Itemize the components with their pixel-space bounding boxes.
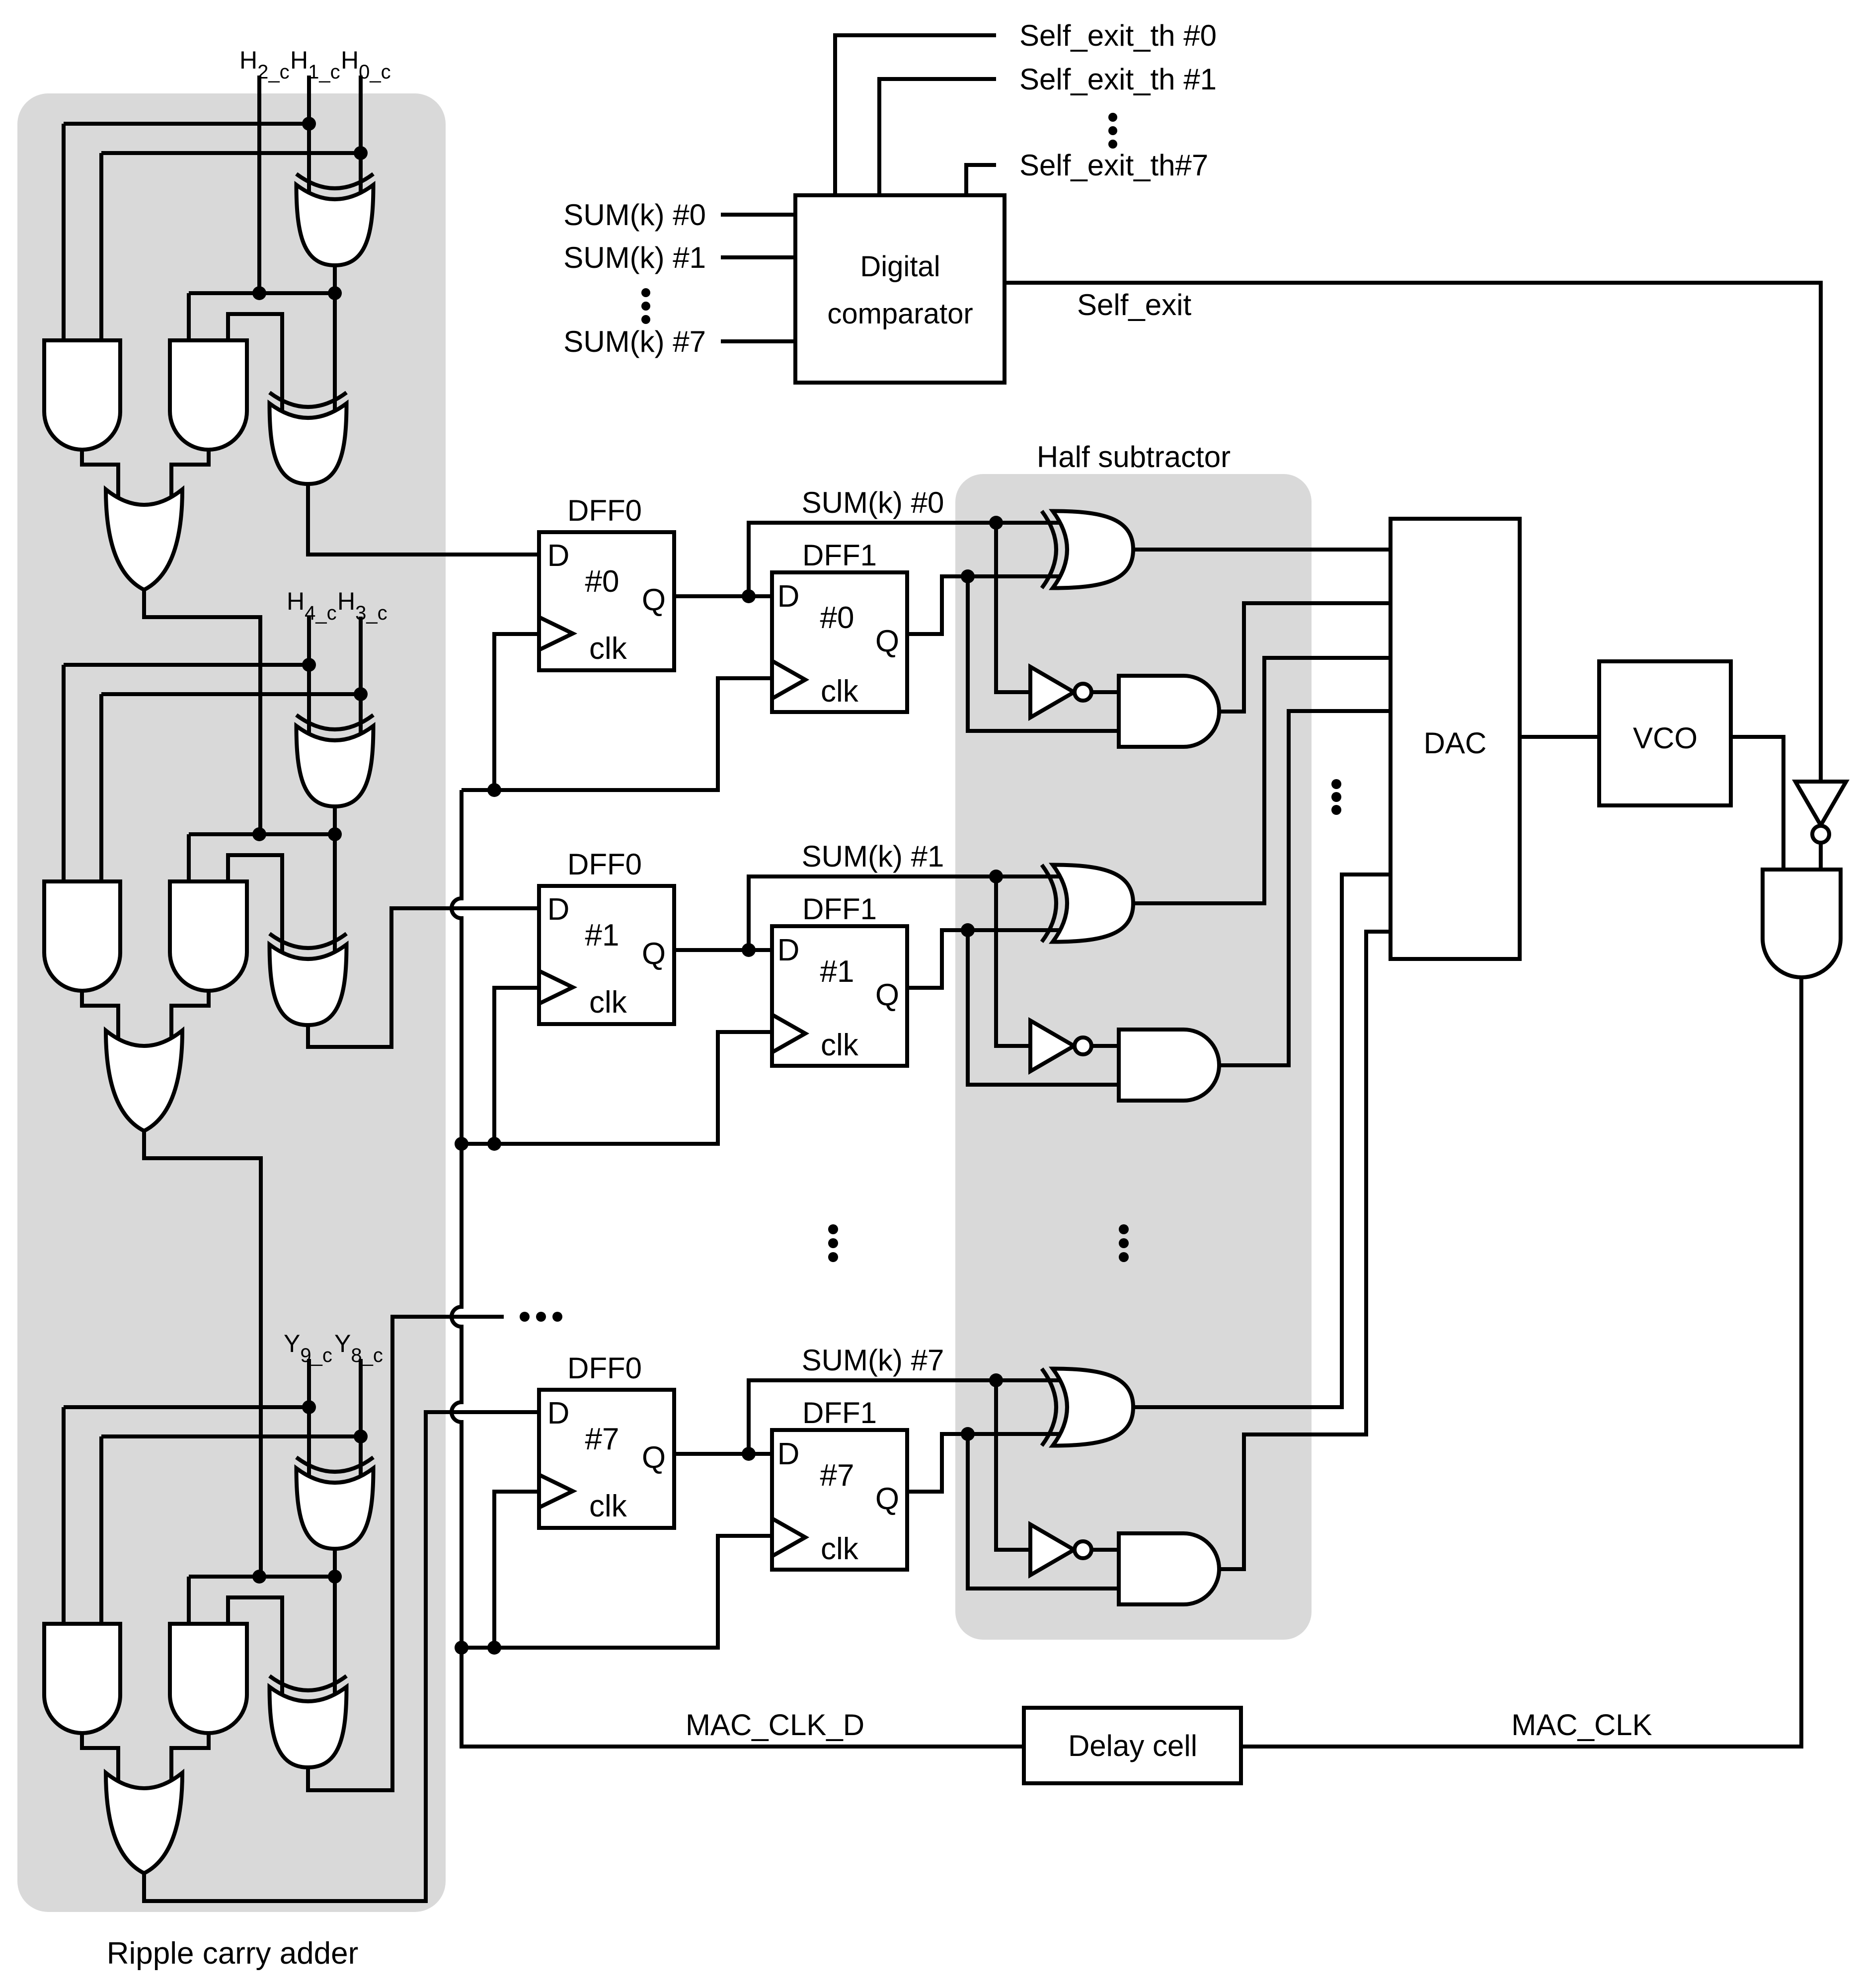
wire main (carry-in) stage3 bbox=[189, 1575, 335, 1579]
and gate AND1 stage3 bbox=[44, 1624, 120, 1733]
wire SUM(k) #7 input bbox=[721, 339, 795, 343]
svg-text:Self_exit: Self_exit bbox=[1077, 288, 1191, 321]
xor gate half-subtractor row0 bbox=[1053, 511, 1133, 588]
wire AND row7 to DAC bbox=[1219, 932, 1391, 1569]
dff DFF0 #7 bbox=[539, 1390, 674, 1528]
wire W2 drop to AND1 stage2 bbox=[99, 694, 103, 884]
xor gate XOR1 stage1 bbox=[297, 185, 374, 265]
wire XOR1 out stage2 bbox=[333, 806, 337, 834]
and gate half-subtractor row7 bbox=[1119, 1533, 1219, 1604]
wire Self_exit_th #7 bbox=[966, 165, 996, 195]
wire to AND in2 row1 bbox=[968, 930, 1119, 1085]
ellipsis SUM(k) bbox=[641, 288, 650, 297]
wire clk to DFF0 row0 bbox=[494, 634, 539, 790]
wire to XOR2 in2 stage1 bbox=[333, 293, 337, 422]
svg-text:DAC: DAC bbox=[1424, 726, 1487, 760]
svg-text:VCO: VCO bbox=[1633, 721, 1698, 755]
and gate AND2 stage3 bbox=[170, 1624, 247, 1733]
node W2-B stage2 bbox=[354, 687, 368, 701]
svg-text:D: D bbox=[547, 1396, 570, 1431]
wire AND row1 to DAC bbox=[1219, 711, 1391, 1065]
ellipsis rows (DFF area) bbox=[828, 1224, 838, 1234]
wire XOR1 out stage3 bbox=[333, 1549, 337, 1577]
inverter row7 bbox=[1030, 1524, 1074, 1575]
wire W2 stage1 bbox=[101, 151, 361, 155]
dff DFF1 #1 bbox=[772, 926, 907, 1066]
wire DFF0 Q to DFF1 D row1 bbox=[674, 948, 772, 952]
svg-text:SUM(k) #7: SUM(k) #7 bbox=[563, 325, 706, 358]
node SUM tap row0 bbox=[989, 516, 1003, 530]
xor gate XOR2 (sum) stage2 bbox=[270, 945, 347, 1025]
svg-text:SUM(k) #7: SUM(k) #7 bbox=[802, 1344, 944, 1377]
node Q tap row0 bbox=[742, 589, 756, 603]
xor gate half-subtractor row7 bbox=[1053, 1369, 1133, 1446]
node Q tap row7 bbox=[742, 1447, 756, 1461]
svg-text:SUM(k) #1: SUM(k) #1 bbox=[563, 241, 706, 274]
svg-text:D: D bbox=[547, 892, 570, 927]
svg-text:Self_exit_th #0: Self_exit_th #0 bbox=[1019, 19, 1217, 52]
wire MAC_CLK bbox=[1241, 977, 1801, 1747]
and gate half-subtractor row0 bbox=[1119, 676, 1219, 747]
wire to inverter row7 bbox=[996, 1380, 1030, 1550]
wire W1 stage2 bbox=[64, 663, 309, 667]
dff DFF1 #0 bbox=[772, 572, 907, 712]
node W1-A stage1 bbox=[302, 117, 316, 131]
inverter row1 bbox=[1030, 1021, 1074, 1071]
wire carry-out OR3 to DFF0 row7 D bbox=[144, 1412, 539, 1901]
wire W1 stage1 bbox=[64, 122, 309, 126]
wire SUM(k) #1 input bbox=[721, 255, 795, 259]
and gate AND2 stage1 bbox=[170, 340, 247, 450]
node carry-in stage3 bbox=[252, 1570, 266, 1584]
wire Self_exit_th #1 bbox=[879, 79, 996, 195]
wire step to XOR2 in1 stage1 bbox=[228, 314, 282, 422]
wire clk rail row1 bbox=[462, 1032, 772, 1144]
and gate AND1 stage2 bbox=[44, 881, 120, 991]
ellipsis rows (half subtractor area) bbox=[1119, 1224, 1129, 1234]
svg-text:D: D bbox=[777, 1437, 800, 1471]
wire to AND2 in1 stage3 bbox=[187, 1577, 191, 1626]
svg-text:clk: clk bbox=[589, 985, 627, 1020]
wire input B stage2 bbox=[359, 617, 363, 745]
wire AND1 out stage2 bbox=[82, 991, 118, 1050]
vco VCO box bbox=[1599, 661, 1731, 805]
and gate half-subtractor row1 bbox=[1119, 1030, 1219, 1101]
svg-text:Q: Q bbox=[875, 1482, 899, 1516]
wire input A stage2 bbox=[307, 617, 311, 745]
wire W2 drop to AND1 stage1 bbox=[99, 153, 103, 343]
svg-text:MAC_CLK_D: MAC_CLK_D bbox=[686, 1708, 864, 1742]
and gate AND1 stage1 bbox=[44, 340, 120, 450]
wire to AND in2 row0 bbox=[968, 576, 1119, 731]
xor gate XOR1 stage3 bbox=[297, 1468, 374, 1549]
wire to AND2 in1 stage2 bbox=[187, 834, 191, 884]
delay cell box bbox=[1024, 1708, 1241, 1783]
wire H2_c (carry-in) stage1 bbox=[257, 76, 261, 293]
node XOR1-out stage1 bbox=[328, 286, 342, 300]
wire to XOR2 in2 stage2 bbox=[333, 834, 337, 963]
wire DFF0 Q to DFF1 D row0 bbox=[674, 594, 772, 598]
and gate AND2 stage2 bbox=[170, 881, 247, 991]
svg-text:comparator: comparator bbox=[827, 298, 973, 330]
node DFF1-Q tap row1 bbox=[961, 923, 975, 937]
wire XOR1 out stage1 bbox=[333, 265, 337, 293]
svg-text:DFF0: DFF0 bbox=[567, 1352, 642, 1385]
wire input A stage1 bbox=[307, 76, 311, 204]
svg-text:clk: clk bbox=[821, 1028, 859, 1062]
svg-text:Q: Q bbox=[875, 978, 899, 1012]
node W2-B stage1 bbox=[354, 146, 368, 160]
wire MAC_CLK_D vertical with hops bbox=[452, 790, 1024, 1747]
wire Self_exit bbox=[1005, 283, 1821, 782]
node clk rail tap row1 bbox=[455, 1137, 468, 1151]
svg-text:D: D bbox=[777, 579, 800, 614]
node SUM tap row7 bbox=[989, 1373, 1003, 1387]
dff DFF0 #1 bbox=[539, 886, 674, 1024]
wire XOR row1 to DAC bbox=[1133, 658, 1391, 903]
wire inverter to AND row1 bbox=[1091, 1044, 1119, 1048]
digital comparator box bbox=[795, 195, 1005, 383]
wire W1 drop to AND1 stage2 bbox=[62, 665, 66, 884]
wire to inverter row0 bbox=[996, 523, 1030, 692]
wire SUM(k) row1 bbox=[749, 876, 1072, 950]
svg-text:Self_exit_th#7: Self_exit_th#7 bbox=[1019, 149, 1208, 182]
wire DFF1 Q row1 bbox=[907, 930, 1072, 988]
node DFF0 clk tap row7 bbox=[487, 1641, 501, 1655]
svg-text:clk: clk bbox=[821, 674, 859, 709]
svg-text:SUM(k) #0: SUM(k) #0 bbox=[802, 486, 944, 519]
svg-text:Digital: Digital bbox=[860, 250, 940, 283]
wire AND1 out stage3 bbox=[82, 1733, 118, 1793]
svg-text:#0: #0 bbox=[585, 564, 619, 599]
svg-text:Half subtractor: Half subtractor bbox=[1037, 440, 1231, 474]
svg-text:Delay cell: Delay cell bbox=[1068, 1729, 1197, 1762]
node XOR1-out stage2 bbox=[328, 827, 342, 841]
svg-text:D: D bbox=[547, 539, 570, 573]
svg-text:clk: clk bbox=[821, 1532, 859, 1566]
wire Self_exit_th #0 bbox=[835, 35, 996, 195]
dff DFF1 #7 bbox=[772, 1430, 907, 1570]
svg-text:SUM(k) #0: SUM(k) #0 bbox=[563, 198, 706, 232]
wire carry OR2 to stage3 bbox=[144, 1131, 261, 1577]
svg-text:D: D bbox=[777, 933, 800, 967]
wire input B stage3 bbox=[359, 1359, 363, 1487]
svg-text:#7: #7 bbox=[585, 1422, 619, 1456]
wire AND1 out stage1 bbox=[82, 450, 118, 509]
svg-text:Ripple carry adder: Ripple carry adder bbox=[107, 1936, 359, 1971]
xor gate XOR1 stage2 bbox=[297, 726, 374, 806]
dff DFF0 #0 bbox=[539, 532, 674, 670]
wire W1 stage3 bbox=[64, 1405, 309, 1409]
wire to XOR2 in2 stage3 bbox=[333, 1577, 337, 1706]
wire W2 stage3 bbox=[101, 1434, 361, 1438]
svg-text:#7: #7 bbox=[820, 1458, 854, 1493]
wire step to XOR2 in1 stage2 bbox=[228, 855, 282, 963]
svg-text:MAC_CLK: MAC_CLK bbox=[1511, 1708, 1652, 1742]
wire XOR row7 to DAC bbox=[1133, 875, 1391, 1407]
and gate clock gate bbox=[1763, 870, 1841, 977]
wire AND2 out stage1 bbox=[171, 450, 209, 509]
svg-text:DFF1: DFF1 bbox=[802, 892, 877, 926]
wire inverter to AND row0 bbox=[1091, 690, 1119, 694]
wire W2 stage2 bbox=[101, 692, 361, 696]
wire SUM(k) row0 bbox=[749, 523, 1072, 596]
ellipsis Self_exit_th bbox=[1108, 113, 1117, 122]
or gate OR2 (carry-out) stage2 bbox=[106, 1031, 182, 1131]
wire inverter to AND row7 bbox=[1091, 1548, 1119, 1552]
svg-text:Self_exit_th #1: Self_exit_th #1 bbox=[1019, 63, 1217, 96]
wire clk to DFF0 row1 bbox=[494, 988, 539, 1144]
wire W2 drop to AND1 stage3 bbox=[99, 1436, 103, 1626]
svg-text:#1: #1 bbox=[585, 918, 619, 953]
svg-text:clk: clk bbox=[589, 1489, 627, 1523]
node DFF0 clk tap row1 bbox=[487, 1137, 501, 1151]
wire DFF1 Q row7 bbox=[907, 1434, 1072, 1492]
wire sum stage1 to DFF0 row0 D bbox=[308, 484, 539, 555]
svg-text:Q: Q bbox=[642, 583, 666, 617]
ripple carry adder panel bbox=[17, 93, 446, 1912]
wire W1 drop to AND1 stage3 bbox=[62, 1407, 66, 1626]
wire W1 drop to AND1 stage1 bbox=[62, 124, 66, 343]
wire sum stage2 to DFF0 row1 D bbox=[308, 908, 539, 1047]
wire VCO out to AND bbox=[1731, 737, 1783, 870]
svg-text:H0_c: H0_c bbox=[341, 46, 391, 83]
wire step to XOR2 in1 stage3 bbox=[228, 1597, 282, 1706]
svg-text:SUM(k) #1: SUM(k) #1 bbox=[802, 840, 944, 873]
wire main (carry-in) stage1 bbox=[189, 291, 335, 295]
wire AND2 out stage2 bbox=[171, 991, 209, 1050]
dac DAC box bbox=[1391, 519, 1520, 959]
wire AND row0 to DAC bbox=[1219, 603, 1391, 712]
node DFF0 clk tap row0 bbox=[487, 783, 501, 797]
or gate OR1 (carry-out) stage1 bbox=[106, 489, 182, 590]
node DFF1-Q tap row7 bbox=[961, 1427, 975, 1441]
wire clk rail row0 bbox=[462, 678, 772, 790]
node W1-A stage3 bbox=[302, 1400, 316, 1414]
wire XOR row0 to DAC bbox=[1133, 548, 1391, 552]
wire carry OR1 to stage2 bbox=[144, 590, 260, 834]
wire SUM(k) #0 input bbox=[721, 213, 795, 217]
svg-text:Q: Q bbox=[642, 937, 666, 971]
wire to AND2 in1 stage1 bbox=[187, 293, 191, 343]
svg-text:DFF1: DFF1 bbox=[802, 539, 877, 572]
wire inverter to AND bbox=[1819, 843, 1823, 870]
node W2-B stage3 bbox=[354, 1430, 368, 1443]
svg-text:DFF1: DFF1 bbox=[802, 1396, 877, 1430]
wire sum stage3 to ellipsis bbox=[308, 1317, 504, 1790]
half subtractor panel bbox=[955, 474, 1312, 1640]
node SUM tap row1 bbox=[989, 870, 1003, 883]
inverter row0 bbox=[1030, 667, 1074, 717]
svg-text:clk: clk bbox=[589, 632, 627, 666]
ellipsis dots (sum bus continuation) bbox=[520, 1312, 530, 1322]
wire SUM(k) row7 bbox=[749, 1380, 1072, 1454]
wire to AND in2 row7 bbox=[968, 1434, 1119, 1589]
node clk rail tap row7 bbox=[455, 1641, 468, 1655]
svg-text:H1_c: H1_c bbox=[290, 46, 340, 83]
node carry-in stage1 bbox=[252, 286, 266, 300]
xor gate XOR2 (sum) stage1 bbox=[270, 403, 347, 484]
or gate OR3 (carry-out) stage3 bbox=[106, 1773, 182, 1873]
wire input B stage1 bbox=[359, 76, 363, 204]
node W1-A stage2 bbox=[302, 658, 316, 672]
ellipsis DAC inputs bbox=[1331, 779, 1341, 789]
inverter (Self_exit) bbox=[1795, 782, 1846, 825]
wire DFF0 Q to DFF1 D row7 bbox=[674, 1452, 772, 1456]
svg-text:DFF0: DFF0 bbox=[567, 494, 642, 527]
svg-text:DFF0: DFF0 bbox=[567, 848, 642, 881]
wire AND2 out stage3 bbox=[171, 1733, 209, 1793]
xor gate half-subtractor row1 bbox=[1053, 865, 1133, 942]
wire main (carry-in) stage2 bbox=[189, 832, 335, 836]
node Q tap row1 bbox=[742, 943, 756, 957]
svg-text:#0: #0 bbox=[820, 601, 854, 635]
node carry-in stage2 bbox=[252, 827, 266, 841]
wire DFF1 Q row0 bbox=[907, 576, 1072, 634]
svg-text:Q: Q bbox=[875, 624, 899, 658]
wire clk rail row7 bbox=[462, 1536, 772, 1648]
wire clk to DFF0 row7 bbox=[494, 1492, 539, 1648]
wire DAC to VCO bbox=[1520, 735, 1599, 739]
svg-text:Q: Q bbox=[642, 1440, 666, 1475]
wire input A stage3 bbox=[307, 1359, 311, 1487]
node DFF1-Q tap row0 bbox=[961, 569, 975, 583]
svg-text:#1: #1 bbox=[820, 954, 854, 989]
node XOR1-out stage3 bbox=[328, 1570, 342, 1584]
xor gate XOR2 (sum) stage3 bbox=[270, 1687, 347, 1767]
wire to inverter row1 bbox=[996, 876, 1030, 1046]
svg-text:H2_c: H2_c bbox=[239, 46, 290, 83]
